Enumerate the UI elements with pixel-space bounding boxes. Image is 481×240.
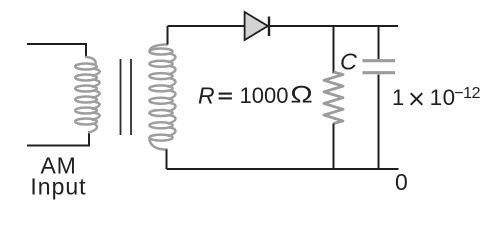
wire: AM input top stub <box>27 44 86 58</box>
svg-text:C: C <box>340 49 358 75</box>
svg-text:1000: 1000 <box>240 83 289 108</box>
diode D1 <box>245 12 269 40</box>
capacitor C1 top plate <box>363 59 396 62</box>
wire: bottom rail <box>167 168 399 170</box>
transformer core line right <box>130 59 132 135</box>
svg-text:−12: −12 <box>454 85 480 102</box>
svg-text:0: 0 <box>395 169 408 195</box>
svg-text:Input: Input <box>30 174 86 200</box>
wire: capacitor branch top lead <box>378 26 380 59</box>
wire: AM input bottom stub <box>27 131 89 146</box>
wire: capacitor branch bottom lead <box>378 75 380 170</box>
inductor L1 (transformer primary coil) <box>75 57 99 132</box>
resistor R1 zigzag <box>324 72 343 124</box>
wire: secondary top lead <box>167 26 169 45</box>
wire: resistor branch top lead <box>333 26 335 74</box>
transformer core line left <box>120 59 122 135</box>
svg-text:R: R <box>198 83 215 109</box>
capacitor C1 bottom plate <box>363 71 396 74</box>
wire: secondary bottom lead <box>166 150 168 170</box>
inductor L2 (transformer secondary coil) <box>149 45 175 150</box>
wire: top rail <box>168 25 399 27</box>
svg-text:Ω: Ω <box>290 80 313 108</box>
wire: resistor branch bottom lead <box>333 124 335 170</box>
svg-text:1: 1 <box>392 85 404 110</box>
svg-text:10: 10 <box>430 85 456 110</box>
